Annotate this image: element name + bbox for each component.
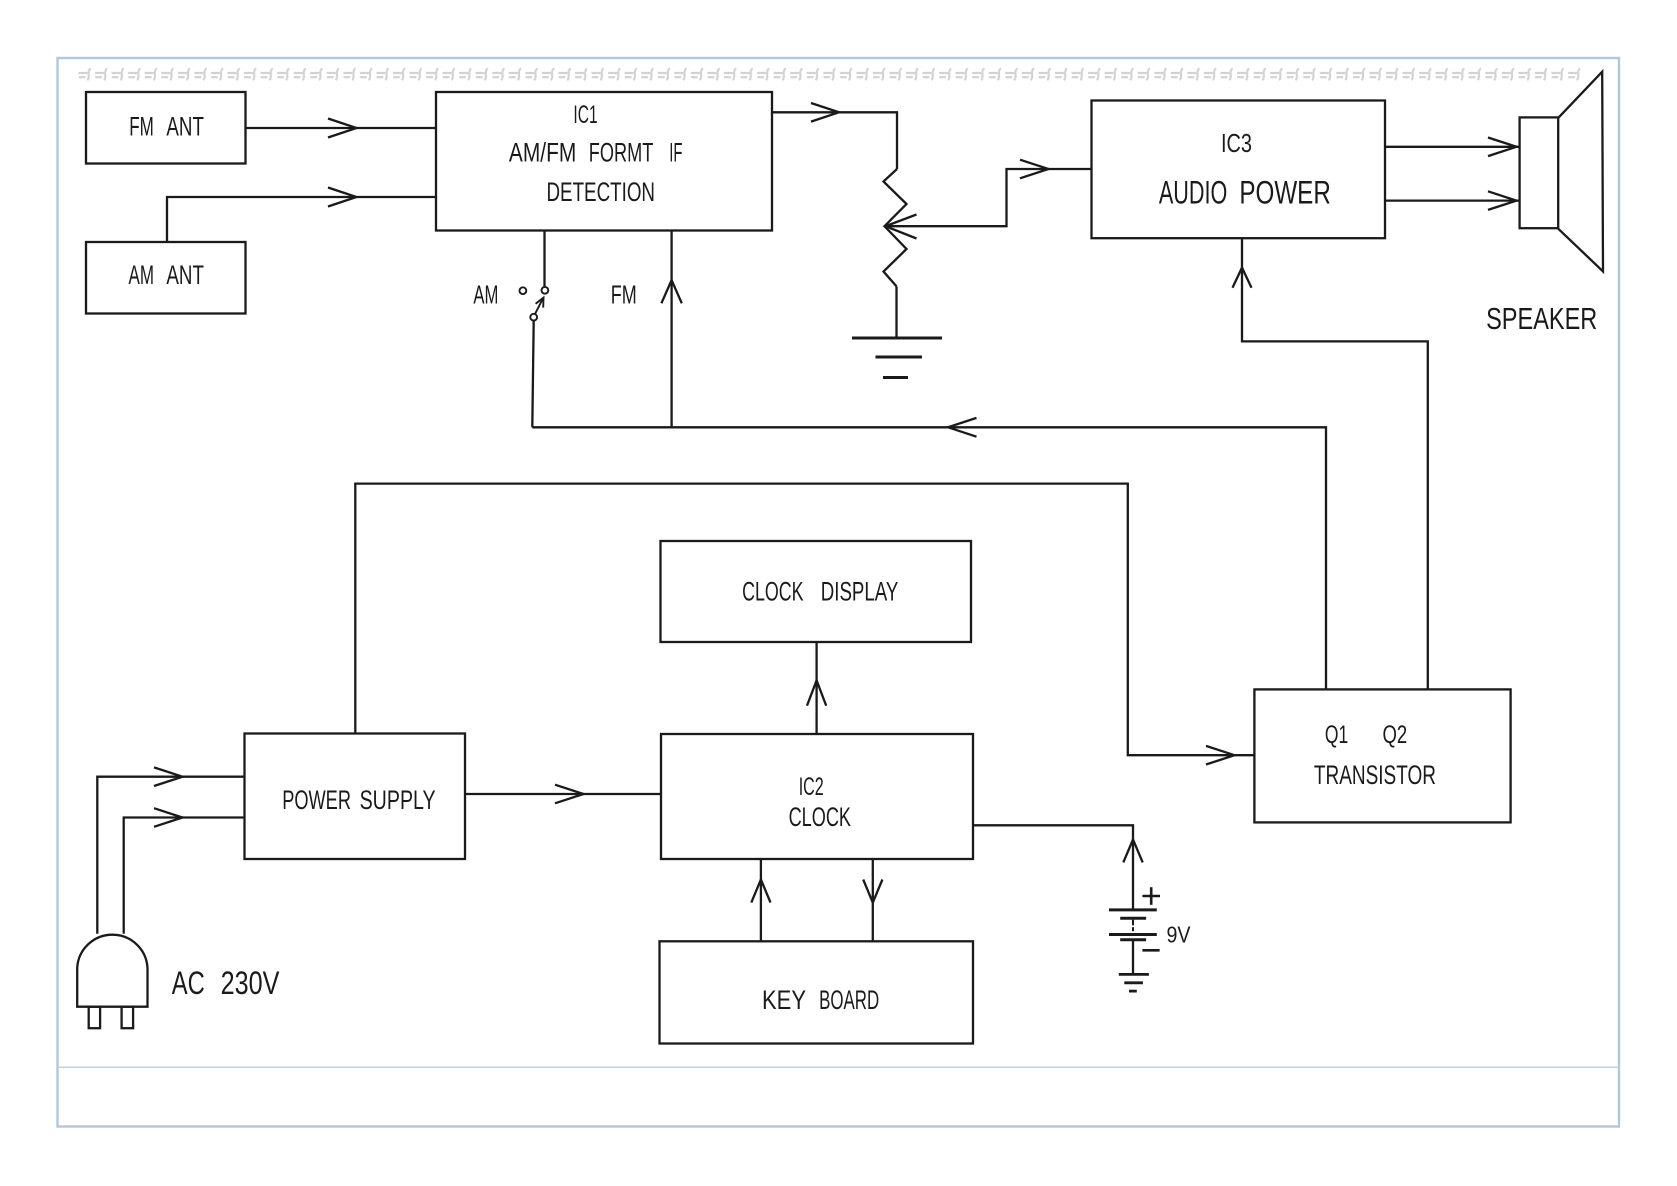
potentiometer VR1 zigzag [884,169,907,286]
svg-text:DISPLAY: DISPLAY [821,576,899,606]
arrowhead line1 [154,767,183,786]
AC plug prong left [89,1007,100,1028]
feedback wire from transistor to switch/FM [532,427,1326,689]
wire IC3 to speaker upper [1385,146,1520,148]
arrowhead speaker upper [1488,138,1517,157]
wire pot bottom to ground [895,286,897,338]
arrowhead line2 [154,808,183,827]
svg-text:ANT: ANT [166,111,204,141]
arrowhead left on feedback wire [948,418,977,437]
svg-text:FM: FM [129,111,154,141]
arrowhead up into clock display [807,680,826,705]
switch pole circle [542,287,549,294]
svg-text:Q1: Q1 [1325,721,1348,749]
block KEY BOARD [660,941,974,1043]
arrowhead down into keyboard [863,880,882,903]
footer divider line [58,1066,1620,1068]
arrowhead on FM ANT wire [328,119,357,138]
arrowhead up into IC3 bottom [1233,268,1252,288]
switch common circle [530,314,537,321]
svg-text:POWER: POWER [282,785,351,815]
battery plus sign [1142,895,1160,898]
block IC1 AM/FM FORMT IF DETECTION [436,92,772,231]
block CLOCK DISPLAY [661,541,972,642]
svg-text:AC: AC [172,965,205,1001]
wire AM ANT to IC1 [167,197,436,242]
arrowhead up on battery wire [1123,840,1142,863]
svg-text:SPEAKER: SPEAKER [1486,301,1597,336]
AC plug body [77,935,147,1007]
switch throw circle left [520,287,527,294]
arrowhead up on FM line [661,280,681,303]
svg-text:230V: 230V [221,965,280,1001]
svg-text:SUPPLY: SUPPLY [360,785,436,815]
speaker driver rectangle [1520,117,1559,228]
wire switch common down to feedback line [532,321,533,428]
wire IC1 FM pin down [670,231,672,428]
svg-text:IF: IF [669,138,682,168]
ground symbol under pot [852,337,942,340]
wire wiper to IC3 input [886,169,1092,226]
svg-text:DETECTION: DETECTION [547,177,656,207]
block IC3 AUDIO POWER [1092,101,1386,239]
AC plug prong right [122,1007,134,1028]
svg-text:IC2: IC2 [799,773,824,801]
wire IC2 to battery [973,825,1133,909]
wire IC2 to keyboard down [872,859,874,941]
battery BT1 9V [1109,908,1157,911]
svg-text:POWER: POWER [1239,175,1330,211]
pot wiper arrow [886,215,917,239]
wire IC3 bottom supply [1242,238,1428,689]
wire keyboard to IC2 up [760,859,762,941]
arrowhead on IC1 output wire [811,103,839,122]
svg-text:KEY: KEY [762,985,806,1015]
wire power supply to IC2 [465,793,661,795]
svg-text:AM: AM [129,260,155,290]
svg-text:ANT: ANT [166,260,204,290]
wire IC2 to clock display [815,642,817,734]
wire plug line2 to power supply [124,818,245,934]
arrowhead into IC2 [555,785,584,804]
battery minus sign [1142,949,1159,952]
arrowhead up into IC2 bottom [751,880,770,903]
wire IC1 AM pin to switch [543,231,545,288]
svg-text:FM: FM [611,279,637,309]
wire power supply top to transistor [355,484,1254,756]
speaker horn [1558,72,1603,272]
svg-text:FORMT: FORMT [589,138,654,168]
svg-text:CLOCK: CLOCK [789,802,851,832]
block IC2 CLOCK [661,734,973,859]
svg-text:Q2: Q2 [1383,721,1408,749]
block Q1 Q2 TRANSISTOR [1254,689,1510,822]
svg-text:CLOCK: CLOCK [742,576,803,606]
ground symbol under battery [1119,973,1149,976]
wire plug line1 to power supply [97,777,244,934]
block POWER SUPPLY [245,734,466,860]
svg-text:AM: AM [473,279,498,309]
svg-text:IC1: IC1 [573,101,597,129]
svg-text:TRANSISTOR: TRANSISTOR [1314,760,1436,790]
wire battery to ground [1132,940,1134,974]
svg-text:AUDIO: AUDIO [1159,175,1227,211]
wire IC3 to speaker lower [1385,199,1520,201]
arrowhead speaker lower [1488,191,1517,210]
block AM ANT [86,242,246,314]
wire FM ANT to IC1 [246,127,437,129]
svg-text:9V: 9V [1167,921,1192,947]
svg-text:BOARD: BOARD [819,985,879,1015]
arrowhead on AM ANT wire [328,188,357,207]
switch lever arrow [535,298,544,315]
arrowhead into IC3 [1020,160,1049,179]
arrowhead into transistor left [1206,746,1235,765]
block FM ANT [86,92,246,164]
wire IC1 output to volume pot [772,112,897,169]
svg-text:AM/FM: AM/FM [509,138,576,168]
svg-text:IC3: IC3 [1221,128,1252,158]
